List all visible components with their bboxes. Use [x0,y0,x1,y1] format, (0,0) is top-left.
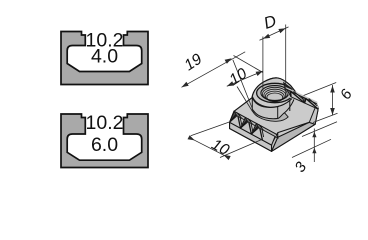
svg-text:19: 19 [181,51,205,75]
thread hole chamfer ellipse [257,83,293,102]
oblique link line [234,56,263,73]
svg-text:10.2: 10.2 [86,112,124,134]
thread turns [262,87,287,101]
dim 19 ext line [233,60,255,114]
plate top front edge [278,122,310,132]
dim D extension lines [262,37,264,91]
svg-text:3: 3 [292,158,311,175]
boss base skirt [252,110,288,121]
dim 10 lower ext lines [191,122,231,136]
svg-text:6.0: 6.0 [91,134,118,156]
left end face [230,122,272,151]
dim 10 lower line [193,139,226,156]
front corner facet [272,133,278,152]
dim 10 upper ext [237,87,253,112]
dim 6 ext lines [304,83,337,96]
right end facet [309,104,318,125]
dim 6 line [332,85,334,115]
front face [272,122,316,151]
left serrated wedge [230,111,276,145]
dim 3 ext lines [302,122,337,137]
right serrated wedge [285,86,319,109]
dim 3 line [313,129,315,163]
thread crest ellipse [261,86,289,101]
boss top face [252,78,296,107]
boss wall [252,93,296,119]
thread notch [283,82,292,91]
svg-text:4.0: 4.0 [91,46,118,68]
T-nut body silhouette [230,78,319,151]
dim D line [260,27,289,40]
svg-text:D: D [262,12,279,33]
profile cross-section slot 4.0 [61,32,148,85]
svg-text:6: 6 [337,86,356,103]
dim 10 upper line [227,71,263,86]
profile cross-section slot 6.0 [61,114,148,168]
boss wall front vertical edge [277,107,279,119]
dim 19 line [182,52,246,88]
